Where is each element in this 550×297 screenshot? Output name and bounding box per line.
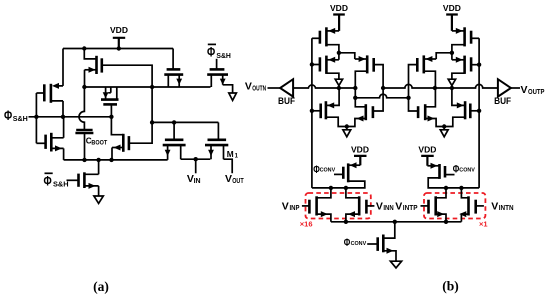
transistor M_a7 top-right NMOS switch <box>164 49 183 88</box>
transistor P2r right cell second PMOS <box>452 53 479 79</box>
label M1 <box>227 149 239 160</box>
node dot net2-left gate <box>381 86 385 90</box>
svg-text:CONV: CONV <box>459 168 475 174</box>
node dot N1r gate <box>477 109 481 113</box>
label V_INP <box>282 200 300 212</box>
svg-text:V: V <box>245 80 252 92</box>
node dot drainline-left1 <box>329 186 333 190</box>
svg-text:VDD: VDD <box>351 145 369 155</box>
wire bottom rail (a) <box>64 159 168 161</box>
node dot boot rail left <box>82 85 86 89</box>
node dot rail-x84 <box>82 46 86 50</box>
label V_OUTP <box>521 84 545 96</box>
transistor M_a8 top-right NMOS to ground <box>207 59 232 93</box>
svg-text:V: V <box>376 200 383 212</box>
svg-text:V: V <box>491 200 498 212</box>
node dot out-colA <box>337 86 341 90</box>
transistor N2r right cell NMOS colB <box>409 88 445 127</box>
VDD label lower right <box>418 145 436 155</box>
wire Voutn lead <box>268 87 281 89</box>
transistor Nin1 input V_INP <box>302 188 331 222</box>
svg-text:(a): (a) <box>93 279 109 294</box>
wire Voutp lead <box>511 87 520 89</box>
transistor Nin2 input V_INN <box>346 188 375 222</box>
svg-text:S&H: S&H <box>13 114 28 123</box>
transistor M_a4 middle PMOS rotated gate-down <box>101 87 119 117</box>
overbar of bottom phi-bar <box>45 172 53 174</box>
transistor M_a2 lower-left NMOS <box>36 133 63 152</box>
transistor M_a6 bottom NMOS <box>67 160 99 196</box>
wire left gate column x312 <box>311 38 313 188</box>
svg-text:CONV: CONV <box>351 241 367 247</box>
dynamic marker triangle left cell <box>335 79 342 88</box>
svg-text:CONV: CONV <box>320 168 336 174</box>
ground symbol top right (a) <box>229 93 237 100</box>
wire net2 upper line with hop over x408 <box>383 84 498 88</box>
dynamic marker triangle right cell <box>448 79 455 88</box>
node dot P2r gate <box>477 62 481 66</box>
transistor P3r right cell left PMOS <box>409 55 437 97</box>
ground symbol left cell <box>343 127 351 137</box>
ground symbol right cell <box>440 127 448 137</box>
node dot rail-x98 <box>96 158 100 162</box>
VDD T symbol lower left <box>354 156 367 165</box>
wire cap top column <box>79 87 84 129</box>
label V_OUT <box>225 173 244 185</box>
node dot P2 gate <box>310 62 314 66</box>
node dot gateline-x174 <box>172 120 176 124</box>
node dot phi-x63 <box>61 115 65 119</box>
transistor M1 output switch <box>205 122 232 173</box>
transistor M_a3 top-middle PMOS rotated <box>84 49 102 75</box>
label V_INTN <box>491 200 513 212</box>
wire Vin interconnect <box>181 158 211 160</box>
wire PMOS drain down to phi node <box>62 101 64 117</box>
label C_BOOT <box>86 136 108 146</box>
clock label PhiS&H-bar top right <box>207 45 231 61</box>
label x1 <box>479 220 488 229</box>
svg-text:BOOT: BOOT <box>91 141 107 147</box>
ground symbol bottom (a) <box>94 196 103 203</box>
node dot tail-left <box>344 220 348 224</box>
caption (b) <box>442 279 459 294</box>
label BUF left <box>278 96 295 106</box>
node dot rail-VDD <box>117 46 121 50</box>
transistor M_a1 upper-left PMOS <box>36 83 63 103</box>
node dot P1 drain <box>337 51 341 55</box>
transistor M_a9 bottom switch left <box>163 122 186 159</box>
red dashed box x1 pair <box>424 193 485 219</box>
svg-text:Φ: Φ <box>344 237 351 249</box>
node dot tail-center <box>393 220 397 224</box>
wire gate column x36 <box>35 93 37 143</box>
wire gate line to output switches <box>152 121 218 123</box>
svg-text:V: V <box>225 173 232 185</box>
svg-text:Φ: Φ <box>44 174 52 189</box>
label BUF right <box>494 96 511 106</box>
label x16 <box>300 220 313 229</box>
transistor Nin3 input V_INTP <box>421 188 447 222</box>
buffer BUF left <box>280 79 293 96</box>
buffer BUF right <box>498 79 511 96</box>
svg-text:BUF: BUF <box>278 96 295 106</box>
svg-text:V: V <box>395 200 402 212</box>
svg-text:VDD: VDD <box>110 25 128 35</box>
VDD T symbol right cell <box>446 15 458 31</box>
transistor Nin4 input V_INTN <box>459 188 484 222</box>
label V_IN <box>187 173 201 185</box>
wire output net1 with hop over x312 <box>293 85 355 88</box>
node dot colB lower <box>353 96 357 100</box>
node dot drainline-right1 <box>444 186 448 190</box>
wire M_a3 source down to boot rail <box>84 70 86 87</box>
svg-text:×16: ×16 <box>300 220 313 229</box>
VDD label left cell <box>330 3 348 13</box>
svg-text:×1: ×1 <box>479 220 488 229</box>
wire phi S&H with hop over cap line <box>29 116 112 118</box>
node dot net2 right colB <box>433 86 437 90</box>
label PhiCONV right <box>453 164 475 176</box>
svg-text:INTP: INTP <box>403 205 418 212</box>
transistor N2 left cell NMOS colB <box>347 88 383 127</box>
svg-text:V: V <box>282 200 289 212</box>
label V_INTP <box>395 200 418 212</box>
node dot x152-rail87 <box>150 85 154 89</box>
transistor P1r right cell top PMOS <box>452 27 479 53</box>
transistor M_a5 right-middle NMOS <box>111 117 128 160</box>
node dot P1r drain <box>450 51 454 55</box>
VDD label lower left <box>351 145 369 155</box>
label PhiCONV left <box>313 164 335 176</box>
svg-text:S&H: S&H <box>216 51 231 60</box>
clock label PhiS&H-bar bottom <box>44 174 69 189</box>
node dot right cell ground <box>442 124 446 128</box>
svg-text:INP: INP <box>290 205 300 212</box>
wire cross node right cell <box>436 53 452 59</box>
label V_INN <box>376 200 394 212</box>
node dot net2 right colA <box>450 86 454 90</box>
node dot rail-cap <box>82 158 86 162</box>
node dot x152-gateline <box>150 120 154 124</box>
node dot left cell ground <box>345 124 349 128</box>
wire cross node to right column <box>339 53 355 59</box>
node dot out-colB <box>353 86 357 90</box>
transistor N1r right cell NMOS colA <box>444 88 479 127</box>
wire gate ladder x152 <box>102 65 152 143</box>
svg-text:OUT: OUT <box>232 178 244 185</box>
label V_OUTN <box>245 80 266 92</box>
svg-text:VDD: VDD <box>418 145 436 155</box>
wire VDD rail <box>63 48 173 50</box>
node dot drainline-left2 <box>344 186 348 190</box>
wire Vin stub <box>195 159 197 173</box>
svg-text:IN: IN <box>194 178 201 185</box>
label PhiCONV tail <box>344 237 367 249</box>
wire tail line <box>331 221 462 223</box>
node dot N1 gate <box>310 109 314 113</box>
svg-text:VDD: VDD <box>330 3 348 13</box>
overbar of top phi-bar <box>208 43 216 45</box>
svg-text:Φ: Φ <box>4 108 12 123</box>
svg-text:Φ: Φ <box>207 45 215 60</box>
wire net1 lower cross line with hop over x383 <box>355 94 408 98</box>
transistor N_tail <box>367 222 396 261</box>
node dot rail-x111 <box>109 158 113 162</box>
svg-text:S&H: S&H <box>53 180 69 189</box>
node dot net1 to right gates <box>406 96 410 100</box>
VDD T symbol lower right <box>421 156 434 166</box>
VDD T symbol left cell <box>333 15 345 31</box>
transistor P1 left cell top PMOS <box>312 27 339 53</box>
wire NMOS source down to bottom rail <box>63 148 65 160</box>
node dot drainline-right2 <box>459 186 463 190</box>
clock label PhiS&H <box>4 108 28 123</box>
svg-text:(b): (b) <box>442 279 459 294</box>
VDD supply label (a) <box>110 25 128 35</box>
wire left vertical from rail <box>62 49 64 86</box>
svg-text:OUTP: OUTP <box>528 89 545 96</box>
svg-text:V: V <box>521 84 528 96</box>
transistor P3 left cell right PMOS <box>355 55 383 97</box>
capacitor C_BOOT <box>75 130 93 160</box>
VDD T symbol (a) <box>113 38 125 49</box>
wire right gate column x479 with hop of net2 <box>478 38 480 188</box>
node dot phi-x36 <box>34 115 38 119</box>
svg-text:INN: INN <box>383 205 393 212</box>
node dot tail-right <box>444 220 448 224</box>
VDD label right cell <box>443 3 461 13</box>
transistor P_conv right reset PMOS <box>427 163 479 188</box>
svg-text:OUTN: OUTN <box>252 85 266 92</box>
red dashed box x16 pair <box>306 193 371 219</box>
transistor P2 left cell second PMOS <box>312 53 339 79</box>
node dot Vin <box>194 157 198 161</box>
node dot phi-x111 <box>109 115 113 119</box>
ground symbol tail <box>390 261 401 268</box>
svg-text:VDD: VDD <box>443 3 461 13</box>
caption (a) <box>93 279 109 294</box>
svg-text:INTN: INTN <box>499 205 514 212</box>
transistor N1 left cell NMOS colA <box>312 88 347 127</box>
svg-text:BUF: BUF <box>494 96 511 106</box>
transistor P_conv left reset PMOS <box>312 162 365 188</box>
wire boot rail y87 <box>84 86 210 88</box>
wire NMOS top lead up to phi node <box>63 117 65 138</box>
svg-text:M: M <box>227 149 234 159</box>
